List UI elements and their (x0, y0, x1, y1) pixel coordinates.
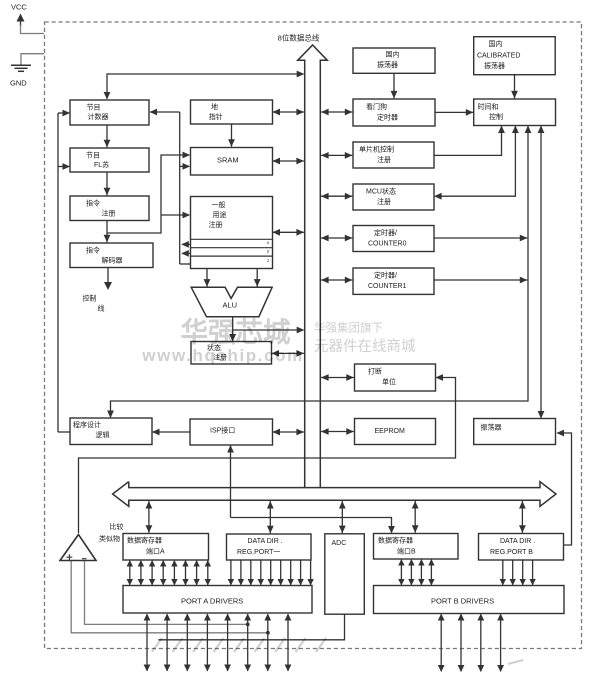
svg-text:8位数据总线: 8位数据总线 (278, 32, 320, 42)
bus link: timer/counter0 (321, 235, 352, 242)
svg-text:REG.PORT B: REG.PORT B (490, 549, 533, 556)
wire: stack pointer to SRAM (228, 124, 235, 147)
wire: instruction decoder to control lines (104, 268, 112, 291)
svg-text:华强芯城: 华强芯城 (181, 317, 291, 348)
svg-text:振荡器: 振荡器 (484, 61, 505, 70)
wire: ISP interface to port B data register (227, 445, 395, 534)
svg-text:类似物: 类似物 (99, 534, 120, 543)
svg-text:注册: 注册 (377, 155, 391, 164)
svg-text:单位: 单位 (382, 377, 396, 386)
block: general purpose registers (一般用途注册) with X/Y/Z rows (191, 197, 273, 269)
svg-text:打断: 打断 (368, 367, 382, 376)
svg-text:ADC: ADC (332, 540, 347, 547)
bus link: MCU control register (321, 152, 352, 159)
svg-text:国内: 国内 (489, 39, 503, 48)
svg-text:SRAM: SRAM (217, 156, 239, 165)
bus link: MCU status register (321, 193, 352, 200)
svg-text:控制: 控制 (489, 112, 503, 121)
svg-text:PORT A DRIVERS: PORT A DRIVERS (181, 597, 243, 606)
svg-text:GND: GND (10, 79, 27, 88)
block: timer/counter0 (定时器/COUNTER0) (353, 226, 434, 252)
svg-text:指令: 指令 (86, 246, 100, 255)
wire: ADC input from port pins (158, 614, 344, 640)
svg-text:振荡器: 振荡器 (377, 60, 398, 69)
bus link: watchdog timer (321, 109, 352, 116)
block: status register (状态注册) (191, 342, 272, 365)
svg-text:数据寄存器: 数据寄存器 (378, 536, 413, 545)
wire: instruction register branch to address feeder (107, 215, 161, 233)
svg-text:注册: 注册 (209, 220, 223, 229)
wires: port A data register to port A drivers (8 bidirectional) (127, 560, 211, 586)
block: port B direction register (DATA DIR. REG.PORT B) (479, 534, 564, 561)
svg-text:CALIBRATED: CALIBRATED (477, 52, 520, 59)
bus link: status register (272, 350, 304, 357)
block: ISP interface (ISP接口) (190, 419, 273, 445)
wire: instruction register to instruction decoder (104, 221, 111, 243)
svg-text:端口B: 端口B (397, 547, 416, 556)
bus link: port A data register (146, 501, 153, 533)
vertical 8-bit data bus (block arrow) (298, 45, 328, 488)
block: internal calibrated oscillator (474, 37, 556, 75)
svg-text:DATA DIR .: DATA DIR . (500, 538, 535, 545)
svg-text:单片机控制: 单片机控制 (359, 144, 394, 153)
wires: port A direction register to port A drivers (9 down) (228, 560, 314, 586)
GND ground symbol (10, 54, 44, 88)
svg-text:线: 线 (98, 304, 105, 313)
wire: register row X to pointer line (181, 241, 190, 248)
wire: watchdog timer to timing and control (435, 109, 473, 116)
block: ADC (325, 534, 365, 614)
block: port A data register (数据寄存器端口A) (123, 534, 209, 561)
block: port B drivers (374, 586, 565, 614)
wire: data bus to program counter (top) (104, 71, 305, 100)
block: EEPROM (355, 419, 436, 445)
wire: X/Y/Z pointer line to program counter (150, 109, 191, 264)
block: port A direction register (DATA DIR. REG.PORT A) (227, 534, 312, 560)
wire: internal oscillator to watchdog timer (391, 73, 398, 98)
block: program flash (节目 FL苏) (70, 148, 149, 172)
svg-text:控制: 控制 (83, 294, 97, 303)
block: SRAM (191, 148, 273, 176)
bus link: general purpose registers (273, 229, 304, 236)
svg-text:端口A: 端口A (146, 547, 165, 556)
bus link: EEPROM (321, 428, 354, 435)
block: stack pointer (地 指针) (191, 100, 273, 124)
wire: timing and control to MCU status register (434, 126, 519, 200)
svg-text:比较: 比较 (110, 522, 124, 531)
svg-text:FL苏: FL苏 (94, 160, 109, 169)
wire: comparator - input from port pin (85, 561, 248, 625)
wire: timing and control to oscillator (538, 126, 545, 419)
svg-text:注册: 注册 (377, 197, 391, 206)
wire: registers to ALU (left operand) (204, 269, 211, 287)
bus link: port B direction register (519, 501, 526, 533)
VCC power symbol (11, 3, 44, 34)
svg-text:用途: 用途 (213, 210, 227, 219)
svg-text:华强集团旗下: 华强集团旗下 (314, 321, 383, 335)
wire: timer/counter0 tap to timing line (434, 235, 527, 242)
junction: comparator - input on pin PA6 (246, 623, 250, 627)
pins: port B pins (4 bidirectional) (438, 614, 504, 673)
wire: calibrated oscillator to timing and control (511, 75, 518, 98)
svg-text:指令: 指令 (86, 198, 100, 207)
wire: analog comparator output to interrupt unit (79, 374, 456, 533)
svg-text:指针: 指针 (209, 112, 223, 121)
wire: ALU output to bus and status register (229, 317, 304, 342)
wire: timing strobe line to programming logic (107, 126, 531, 419)
comparator: analog comparator (triangle, 比较/类似物) (60, 522, 124, 561)
svg-text:定时器/: 定时器/ (374, 270, 397, 279)
svg-text:MCU状态: MCU状态 (366, 186, 396, 195)
wire: address feeder vertical to SRAM and registers (161, 152, 190, 219)
svg-text:地: 地 (211, 102, 218, 111)
block: port B data register (数据寄存器端口B) (374, 534, 459, 560)
bus link: interrupt unit (321, 374, 354, 381)
wire: program flash to instruction register (104, 172, 111, 195)
svg-text:定时器: 定时器 (377, 112, 398, 121)
wire: ISP interface to programming logic (152, 429, 190, 436)
svg-text:时间和: 时间和 (478, 102, 499, 111)
svg-text:元器件在线商城: 元器件在线商城 (314, 338, 416, 355)
svg-text:数据寄存器: 数据寄存器 (127, 536, 162, 545)
wire: program counter to program flash (104, 125, 111, 147)
bus link: ADC (339, 501, 346, 533)
block: MCU status register (MCU状态注册) (353, 184, 434, 210)
wire: programming logic feedback to program counter / flash (left rail) (58, 110, 70, 432)
svg-text:ALU: ALU (223, 301, 238, 310)
wire: comparator + input from port pin (71, 561, 268, 633)
watermark: 华强芯城 / www.hqchip.com overlay (141, 317, 523, 665)
block: instruction register (指令注册) (70, 196, 149, 221)
block: MCU control register (单片机控制注册) (353, 142, 434, 168)
block: timer/counter1 (定时器/COUNTER1) (353, 268, 434, 294)
svg-text:节目: 节目 (87, 103, 101, 111)
bus link: port B data register (412, 501, 419, 533)
block: programming logic (程序设计逻辑) (70, 418, 152, 445)
svg-text:VCC: VCC (11, 3, 27, 12)
block: program counter (节目计数器) (70, 100, 149, 125)
wire: timer/counter1 tap to timing line (434, 277, 527, 284)
block: interrupt unit (打断单位) (355, 364, 436, 391)
svg-text:一般: 一般 (212, 200, 226, 209)
wire: registers to ALU (right operand) (254, 269, 261, 287)
wire: oscillator to XTAL port pins (557, 430, 572, 545)
bus link: port A direction register (267, 501, 274, 533)
svg-text:www.hqchip.com: www.hqchip.com (141, 346, 304, 365)
svg-text:振荡器: 振荡器 (481, 423, 502, 432)
svg-text:计数器: 计数器 (88, 112, 109, 121)
junction: comparator + input on pin PA7 (266, 631, 270, 635)
svg-text:程序设计: 程序设计 (73, 420, 101, 429)
pins: port A pins PA0-PA7 (8 bidirectional) (144, 614, 292, 672)
bus link: timer/counter1 (321, 277, 352, 284)
svg-text:ISP接口: ISP接口 (210, 426, 235, 435)
block: port A drivers (123, 586, 312, 614)
wire: MCU control register to timing and control (434, 126, 505, 156)
wires: port B direction register to port B drivers (4 down) (500, 560, 536, 586)
block: oscillator (振荡器) (474, 419, 556, 445)
svg-text:COUNTER0: COUNTER0 (368, 240, 407, 247)
svg-text:DATA DIR .: DATA DIR . (248, 538, 283, 545)
block: timing and control (时间和控制) (474, 99, 556, 126)
svg-text:PORT B DRIVERS: PORT B DRIVERS (431, 597, 494, 606)
svg-text:解码器: 解码器 (102, 255, 123, 264)
svg-text:国内: 国内 (386, 50, 400, 59)
svg-text:节目: 节目 (86, 151, 100, 159)
svg-text:逻辑: 逻辑 (96, 430, 110, 439)
svg-text:看门狗: 看门狗 (366, 102, 387, 111)
block: instruction decoder (指令解码器) (70, 243, 153, 268)
block: watchdog timer (看门狗定时器) (353, 99, 435, 126)
horizontal I/O data bus (double block arrow) (113, 482, 556, 507)
svg-text:EEPROM: EEPROM (375, 428, 406, 435)
block: ALU (trapezoid with notch) (191, 287, 272, 316)
svg-text:COUNTER1: COUNTER1 (368, 283, 407, 290)
bus link: ISP interface (273, 429, 304, 436)
svg-text:REG.PORT一: REG.PORT一 (237, 549, 280, 556)
bus link: stack pointer (273, 109, 304, 116)
wires: port B data register to port B drivers (4 bidirectional) (398, 559, 434, 586)
bus link: SRAM (273, 158, 304, 165)
block: internal oscillator (国内振荡器) (353, 48, 435, 73)
wire: register row Y to pointer line (181, 250, 190, 257)
svg-text:定时器/: 定时器/ (374, 228, 397, 237)
svg-text:注册: 注册 (102, 208, 116, 217)
